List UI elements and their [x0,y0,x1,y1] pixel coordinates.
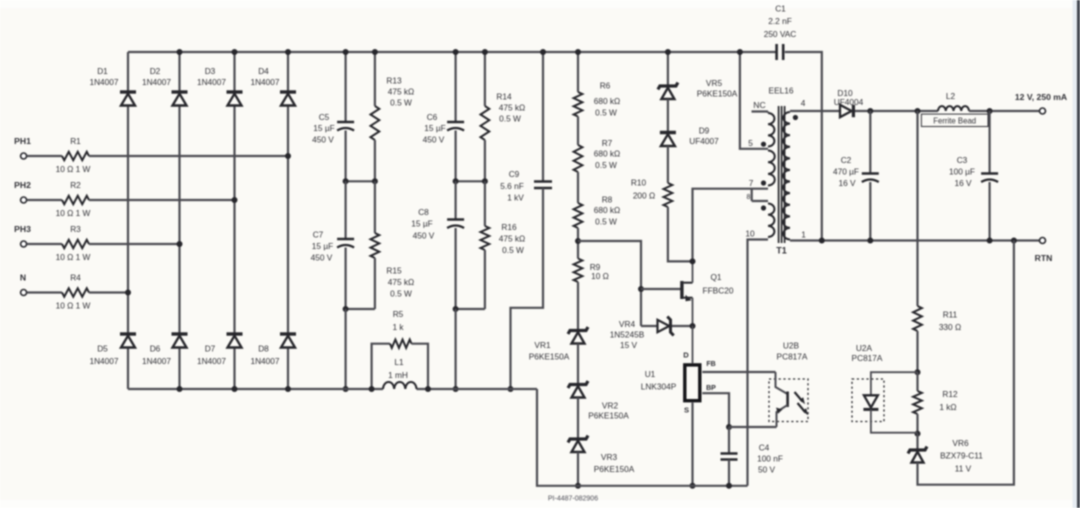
svg-text:Ferrite Bead: Ferrite Bead [933,116,976,125]
svg-text:L2: L2 [946,91,956,101]
diode D6 [142,334,188,366]
terminal PH1 [14,136,31,159]
svg-text:1N4007: 1N4007 [197,77,226,87]
wire R10 to drain node [668,207,693,261]
svg-text:L1: L1 [394,357,404,367]
svg-text:U2A: U2A [856,343,873,353]
wire R8-R9 node [575,228,581,259]
transformer bias winding [768,204,774,238]
svg-text:PH1: PH1 [14,136,31,146]
transformer T1 core [769,86,794,256]
zener VR3 [568,436,635,475]
wire R4 to bridge [89,290,131,296]
capacitor C1 [764,4,797,61]
footer part number [548,496,598,503]
junction drain node [690,258,696,264]
wire low connector A [343,306,375,392]
wire bridge column 2 [178,52,180,389]
resistor R7 [574,138,621,172]
svg-text:RTN: RTN [1035,253,1053,263]
capacitor C4 [721,427,783,489]
wire D9-R10 [667,146,669,183]
svg-text:15 V: 15 V [620,340,638,350]
terminal 12V output [1015,92,1067,114]
diode D7 [197,334,243,366]
wire D10 to L2 [855,108,938,114]
svg-text:P6KE150A: P6KE150A [594,464,635,474]
svg-text:0.5 W: 0.5 W [390,289,412,299]
svg-text:680 kΩ: 680 kΩ [594,96,621,106]
wire pin8 tie [747,189,768,201]
resistor R2 [27,180,91,218]
junction bottom bus [232,386,238,392]
svg-text:680 kΩ: 680 kΩ [594,205,621,215]
svg-text:7: 7 [749,178,754,188]
svg-text:450 V: 450 V [423,135,445,145]
svg-text:N: N [20,272,26,282]
wire bottom DC bus [128,388,537,390]
junction top bus col3 [232,49,238,55]
svg-text:C3: C3 [957,155,968,165]
svg-text:0.5 W: 0.5 W [502,245,524,255]
wire BP [702,393,732,430]
resistor R16 [481,181,526,309]
svg-text:4: 4 [801,98,806,108]
svg-text:330 Ω: 330 Ω [939,322,961,332]
svg-text:R2: R2 [70,180,81,190]
svg-text:R13: R13 [386,76,402,86]
diode D5 [89,334,136,366]
svg-text:VR6: VR6 [952,438,969,448]
svg-text:R7: R7 [602,138,613,148]
svg-text:15 µF: 15 µF [411,219,432,229]
wire VR3 to source bus [575,452,581,489]
diode D8 [250,334,296,366]
wire R1 to bridge [89,153,291,159]
svg-text:R15: R15 [386,266,402,276]
svg-text:D7: D7 [205,344,216,354]
capacitor C3 [949,111,998,244]
svg-text:450 V: 450 V [312,135,334,145]
svg-text:PC817A: PC817A [852,353,883,363]
svg-text:P6KE150A: P6KE150A [588,411,629,421]
svg-text:D2: D2 [150,66,161,76]
junction R11-R12 [915,369,921,375]
svg-text:D8: D8 [258,344,269,354]
svg-text:0.5 W: 0.5 W [595,160,617,170]
svg-text:15 µF: 15 µF [313,123,334,133]
svg-text:1 kV: 1 kV [507,193,524,203]
svg-text:D1: D1 [97,66,108,76]
resistor R6 [574,81,621,118]
svg-text:BZX79-C11: BZX79-C11 [940,451,983,461]
wire VR5 column top [665,49,671,86]
junction top bus col4 [285,49,291,55]
svg-text:1N4007: 1N4007 [250,77,279,87]
wire R3 to bridge [89,241,183,247]
resistor R4 [27,272,91,310]
svg-text:VR3: VR3 [601,452,618,462]
zener VR6 [908,434,983,474]
wire R6-R7 [577,117,579,146]
diode D9 [660,126,719,147]
resistor R11 [913,111,961,372]
svg-text:R12: R12 [942,389,958,399]
svg-text:C7: C7 [313,230,324,240]
zener VR2 [568,381,629,421]
svg-text:R1: R1 [70,136,81,146]
resistor R13 [371,49,415,181]
svg-text:0.5 W: 0.5 W [595,217,617,227]
svg-text:0.5 W: 0.5 W [499,114,521,124]
svg-text:450 V: 450 V [413,231,435,241]
svg-text:D9: D9 [699,126,710,136]
wire bridge column 1 [127,52,129,389]
svg-text:S: S [684,406,689,415]
wire base drive node [578,241,644,326]
svg-text:1N4007: 1N4007 [89,356,118,366]
svg-text:0.5 W: 0.5 W [390,98,412,108]
svg-text:1N4007: 1N4007 [197,356,226,366]
svg-text:10 Ω 1 W: 10 Ω 1 W [56,208,91,218]
svg-text:C4: C4 [759,443,770,453]
svg-text:10 Ω 1 W: 10 Ω 1 W [56,301,91,311]
svg-text:1N4007: 1N4007 [89,77,118,87]
junction R12-VR6 [915,431,921,437]
capacitor C5 [312,49,354,181]
svg-text:VR2: VR2 [602,401,619,411]
wire base to Q1 [641,288,682,290]
transistor Q1 [680,261,734,326]
svg-text:D4: D4 [258,66,269,76]
capacitor C9 [500,49,552,392]
svg-text:5.6 nF: 5.6 nF [500,181,524,191]
resistor R3 [27,224,91,262]
diode D3 [197,66,243,106]
svg-text:8: 8 [747,194,751,201]
svg-text:475 kΩ: 475 kΩ [499,103,526,113]
wire mid connector B [453,178,488,184]
capacitor C7 [311,181,354,309]
wire VR1-VR2 [577,344,579,385]
svg-text:D: D [683,351,689,360]
terminal RTN [819,238,1053,264]
wire pin5 feed [737,49,768,149]
wire R9 to VR1 [577,282,579,331]
inductor L1 [383,357,416,389]
svg-text:UF4004: UF4004 [834,97,864,107]
svg-text:VR4: VR4 [619,319,636,329]
svg-text:R6: R6 [600,81,611,91]
svg-text:5: 5 [748,138,753,148]
wire bridge column 4 [287,52,289,389]
svg-text:BP: BP [706,385,716,392]
svg-text:FB: FB [706,361,715,368]
svg-text:10 Ω 1 W: 10 Ω 1 W [56,252,91,262]
terminal N [20,272,27,295]
svg-text:2.2 nF: 2.2 nF [768,16,792,26]
svg-text:0.5 W: 0.5 W [595,108,617,118]
svg-text:15 µF: 15 µF [312,241,333,251]
diode D2 [142,66,188,106]
svg-text:U2B: U2B [783,341,800,351]
svg-text:NC: NC [753,100,765,110]
svg-text:R10: R10 [631,178,647,188]
svg-text:R16: R16 [501,222,517,232]
wire VR6 return [918,241,1014,485]
wire top DC bus [128,51,776,53]
wire R7-R8 [577,172,579,203]
wire U1 source [690,403,696,489]
capacitor C8 [411,181,464,309]
svg-text:100 µF: 100 µF [949,167,975,177]
wire pin10 drop [745,229,768,486]
svg-text:250 VAC: 250 VAC [764,29,797,39]
svg-text:PI-4487-082906: PI-4487-082906 [548,496,598,503]
wire FB [702,371,775,373]
svg-text:1 k: 1 k [392,322,404,332]
svg-text:R8: R8 [602,195,613,205]
wire low connector B [453,306,485,392]
svg-text:1 mH: 1 mH [388,370,408,380]
svg-text:16 V: 16 V [838,178,856,188]
transformer winding 5-7 [768,151,775,186]
svg-text:P6KE150A: P6KE150A [697,89,738,99]
svg-text:R4: R4 [70,272,81,282]
wire source ground bus [537,389,748,486]
svg-text:VR1: VR1 [534,340,551,350]
svg-text:475 kΩ: 475 kΩ [388,87,415,97]
transformer phasing dots [761,115,798,211]
wire pin7 link [693,178,769,261]
svg-text:PH2: PH2 [14,180,31,190]
svg-text:D5: D5 [97,344,108,354]
svg-text:680 kΩ: 680 kΩ [594,149,621,159]
svg-text:1: 1 [801,230,806,240]
svg-text:PH3: PH3 [14,224,31,234]
resistor R10 [631,178,672,208]
wire VR2-VR3 [577,398,579,440]
terminal PH3 [14,224,31,247]
resistor R12 [913,372,958,433]
junction bottom bus [285,386,291,392]
junction bottom bus [177,386,183,392]
svg-text:450 V: 450 V [311,253,333,263]
svg-text:R11: R11 [943,310,958,320]
svg-text:12 V, 250 mA: 12 V, 250 mA [1015,92,1067,102]
transformer secondary winding [783,112,790,240]
wire pin NC stub [752,100,769,113]
svg-text:10 Ω 1 W: 10 Ω 1 W [56,164,91,174]
ic U1 LNK304P [641,326,716,415]
svg-text:C8: C8 [418,207,429,217]
svg-text:1 kΩ: 1 kΩ [939,402,956,412]
svg-text:D6: D6 [150,344,161,354]
svg-text:EEL16: EEL16 [769,86,794,96]
svg-text:UF4007: UF4007 [689,136,719,146]
capacitor C6 [423,49,464,181]
svg-text:10 Ω: 10 Ω [591,271,609,281]
wire bridge column 3 [233,52,235,389]
diode D10 [834,88,864,117]
svg-text:C6: C6 [427,112,438,122]
svg-text:1N4007: 1N4007 [142,77,171,87]
svg-text:200 Ω: 200 Ω [633,191,655,201]
zener VR4 [610,317,696,351]
svg-text:Q1: Q1 [710,272,721,282]
svg-text:R14: R14 [496,92,512,102]
svg-text:PC817A: PC817A [777,352,808,362]
svg-text:D3: D3 [205,66,216,76]
inductor L2 ferrite bead [921,91,988,127]
resistor R14 [481,49,526,181]
wire R6 column top [575,49,581,92]
svg-text:11 V: 11 V [955,464,972,474]
svg-text:FFBC20: FFBC20 [703,286,734,296]
svg-text:1N4007: 1N4007 [250,356,279,366]
capacitor C2 [833,111,879,244]
wire VR5-D9 [667,99,669,133]
junction top bus col2 [177,49,183,55]
svg-text:475 kΩ: 475 kΩ [388,277,415,287]
svg-text:475 kΩ: 475 kΩ [499,234,526,244]
svg-text:C1: C1 [775,4,786,14]
wire opto emitter to BP node [729,426,777,428]
optocoupler U2B [769,341,808,428]
svg-text:C5: C5 [319,112,330,122]
wire L2 to output [969,108,1040,114]
svg-text:P6KE150A: P6KE150A [529,352,570,362]
resistor R8 [574,195,621,229]
svg-text:R3: R3 [70,224,81,234]
svg-text:100 nF: 100 nF [757,454,783,464]
transformer primary winding [768,113,774,147]
svg-text:T1: T1 [776,246,787,256]
wire C1 right to RTN drop [785,52,822,241]
svg-text:470 µF: 470 µF [833,167,859,177]
wire pin4 stub [790,98,840,112]
optocoupler U2A [852,343,918,433]
svg-text:15 µF: 15 µF [424,123,445,133]
svg-text:C2: C2 [841,155,852,165]
svg-text:50 V: 50 V [758,465,776,475]
resistor R9 [574,259,609,283]
svg-text:U1: U1 [645,369,656,379]
svg-text:VR5: VR5 [706,78,723,88]
svg-text:C9: C9 [509,169,520,179]
wire mid connector A [343,178,378,184]
resistor R5 [369,309,431,392]
zener VR1 [529,327,588,362]
diode D4 [250,66,296,106]
wire pin1 stub [790,230,1040,241]
zener VR5 [658,78,738,99]
resistor R15 [371,181,415,309]
svg-text:10: 10 [745,229,755,239]
svg-text:1N4007: 1N4007 [142,356,171,366]
svg-text:LNK304P: LNK304P [641,382,677,392]
diode D1 [89,66,136,106]
svg-text:R5: R5 [393,309,404,319]
svg-text:1N5245B: 1N5245B [610,330,645,340]
wire R2 to bridge [89,197,238,203]
terminal PH2 [14,180,31,203]
svg-text:16 V: 16 V [954,178,972,188]
right edge scan border [1073,0,1080,508]
resistor R1 [27,136,91,174]
